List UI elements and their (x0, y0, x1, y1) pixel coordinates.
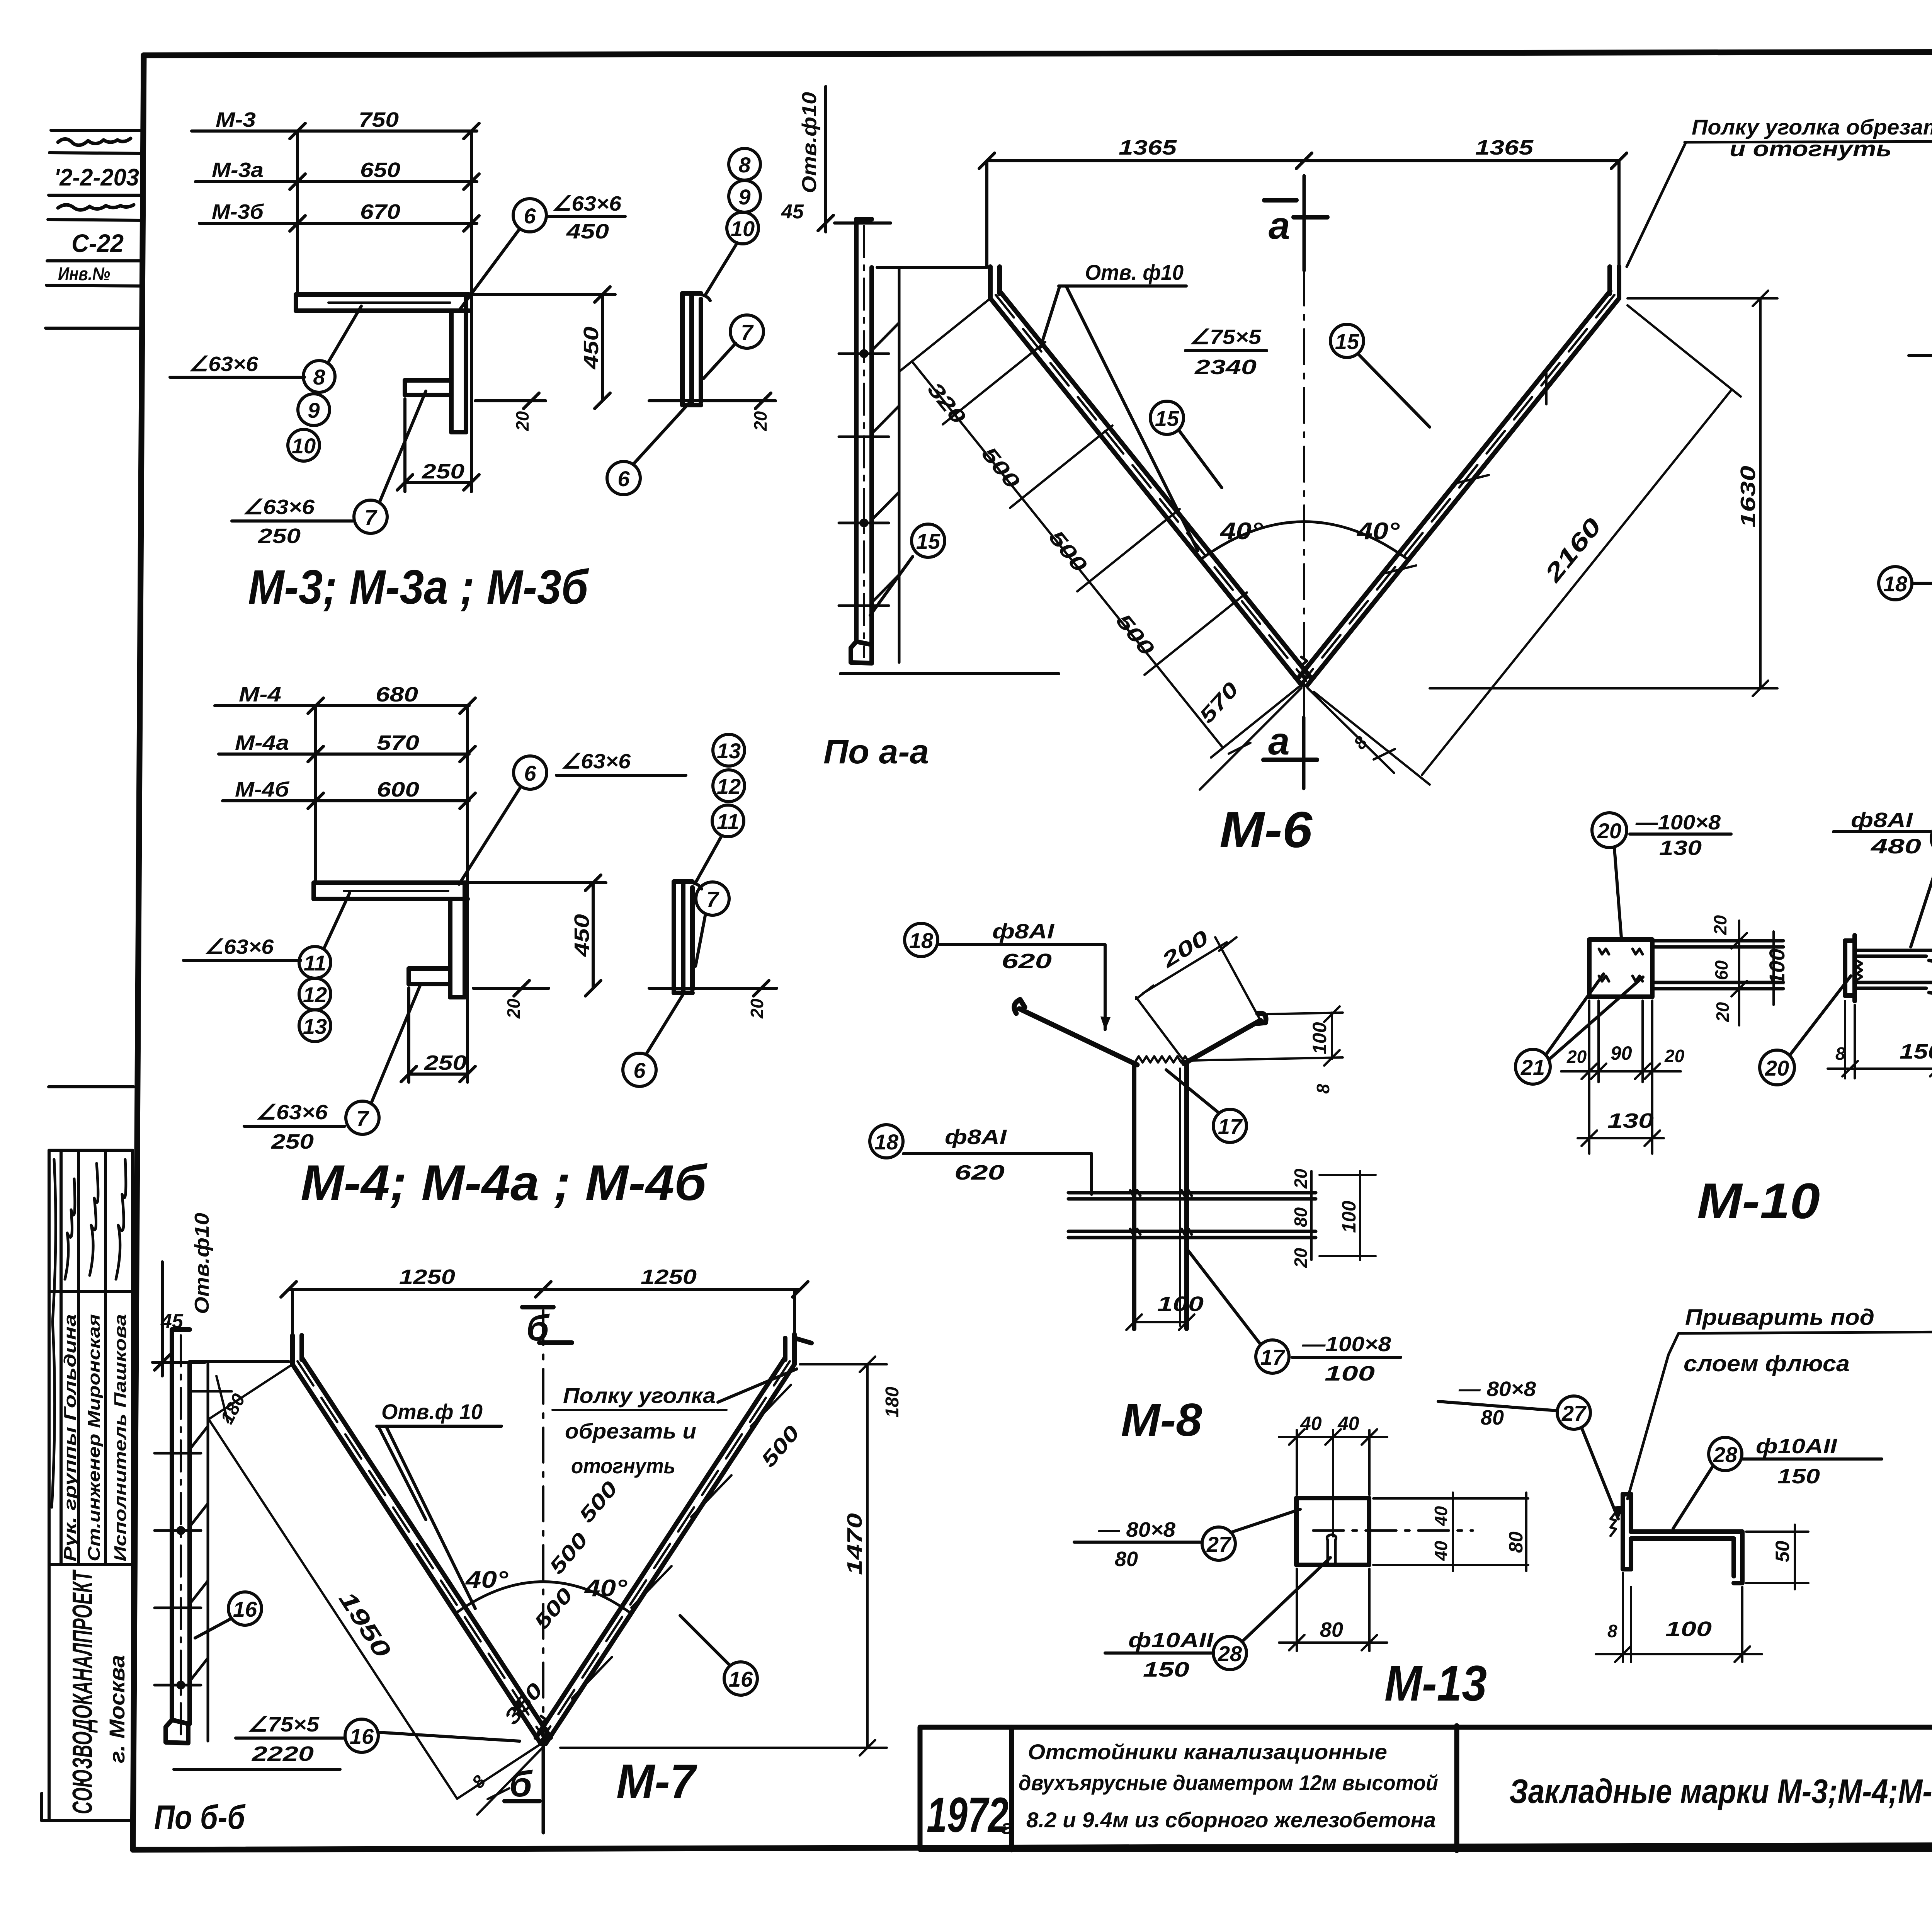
M-10 side view bar (1845, 935, 1855, 1001)
svg-text:ф10АII: ф10АII (1128, 1629, 1214, 1652)
M-6 section bar (По а-а view) (840, 219, 1059, 674)
svg-text:21: 21 (1520, 1055, 1545, 1079)
svg-text:16: 16 (729, 1667, 753, 1691)
svg-text:12: 12 (717, 774, 741, 798)
M-6 40 deg arc (1202, 518, 1406, 558)
svg-text:а: а (1269, 204, 1290, 247)
M-8 callout 18 lower with label (870, 1125, 1092, 1194)
svg-text:45: 45 (781, 201, 804, 223)
svg-text:— 80×8: — 80×8 (1098, 1518, 1175, 1541)
svg-text:∠75×5: ∠75×5 (247, 1713, 320, 1736)
M-13 callout 27 right with label (1438, 1377, 1624, 1520)
M-10 callout 21 upper with label (1833, 809, 1932, 947)
svg-text:150: 150 (1143, 1658, 1189, 1681)
M-10 callout 20 upper with label (1592, 811, 1731, 938)
top-left register table (46, 130, 142, 328)
M-7 section mark b top (522, 1307, 572, 1348)
svg-text:М-4б: М-4б (235, 778, 290, 801)
svg-text:6: 6 (524, 761, 536, 785)
M-7 left arm angle 75x5 (293, 1335, 551, 1744)
svg-text:600: 600 (377, 778, 419, 801)
svg-text:Инв.№: Инв.№ (58, 264, 110, 284)
M-3 callout 6 bottom (607, 402, 690, 495)
M-4 dim 250 (401, 988, 475, 1082)
M-3 bottom label 63x6/250 with callout 7 (232, 391, 426, 548)
M-4 dimension table (215, 683, 475, 1082)
M-6 right dim 1630 (1430, 291, 1777, 696)
M-7 callout 16 at section (195, 1592, 262, 1638)
svg-text:Рук. группы Гольдина: Рук. группы Гольдина (61, 1314, 80, 1561)
svg-text:Отв.ф10: Отв.ф10 (191, 1213, 213, 1314)
M-3 left label 63x6 and callouts 8 9 10 (170, 306, 361, 461)
svg-text:150: 150 (1777, 1465, 1820, 1488)
M-7 right arm angle 75x5 (536, 1334, 811, 1744)
svg-text:С-22: С-22 (71, 229, 124, 257)
M-8 callout 17 bottom with label (1186, 1248, 1401, 1385)
svg-text:20: 20 (1597, 819, 1621, 843)
svg-text:отогнуть: отогнуть (571, 1454, 675, 1478)
M-3 label angle 63x6 with callout 6 (458, 192, 625, 312)
drawing M-9 group (1627, 115, 1932, 698)
M-10 bottom dims 8 150 (1828, 993, 1932, 1078)
svg-text:450: 450 (566, 220, 609, 243)
svg-text:40°: 40° (584, 1575, 628, 1602)
M-3 side view bar (682, 293, 710, 405)
M-4 lower angle bar (409, 969, 450, 984)
svg-text:80: 80 (1505, 1531, 1527, 1553)
svg-text:М-6: М-6 (1219, 801, 1313, 858)
M-6 left arm tick dims 320+500+500+500 (900, 298, 1301, 758)
svg-text:— 80×8: — 80×8 (1458, 1377, 1536, 1401)
M-7 dim 8 at apex (468, 1747, 543, 1815)
M-7 right dim 1470 and 180 (560, 1357, 903, 1755)
svg-text:1250: 1250 (399, 1265, 455, 1289)
svg-text:80: 80 (1115, 1548, 1138, 1571)
svg-text:13: 13 (303, 1014, 327, 1039)
svg-text:60: 60 (1711, 960, 1731, 980)
M-6 left arm angle 75x5 (990, 267, 1311, 685)
svg-text:6: 6 (524, 204, 536, 228)
M-8 bent anchor bar (1014, 999, 1266, 1065)
svg-text:1630: 1630 (1736, 466, 1760, 528)
M-9 callout 18 lower with label (1879, 525, 1932, 612)
svg-text:20: 20 (1713, 1002, 1733, 1022)
svg-text:6: 6 (633, 1058, 646, 1083)
M-3 top angle bar (296, 295, 469, 311)
svg-text:500: 500 (757, 1421, 804, 1471)
svg-text:1365: 1365 (1119, 136, 1177, 159)
svg-text:50: 50 (1772, 1541, 1793, 1562)
M-7 40 deg arc (455, 1566, 631, 1614)
M-6 section mark a bottom (1264, 717, 1317, 788)
svg-text:8: 8 (1835, 1044, 1845, 1064)
M-13 centre line (1313, 1529, 1473, 1532)
M-8 dim 100 8 right (1190, 1006, 1343, 1094)
svg-text:—100×8: —100×8 (1302, 1333, 1391, 1356)
svg-text:и отогнуть: и отогнуть (1730, 136, 1892, 161)
svg-text:∠63×6: ∠63×6 (189, 352, 259, 376)
M-4 left label 63x6 and callouts 11 12 13 (184, 893, 350, 1042)
M-3 vertical leg (451, 295, 466, 432)
svg-text:15: 15 (1335, 329, 1359, 354)
M-10 anchor bars plan (1652, 941, 1783, 989)
svg-text:680: 680 (376, 683, 418, 706)
svg-text:500: 500 (575, 1477, 622, 1527)
M-8 plate front view (1134, 1064, 1187, 1329)
M-3 dim 250 (397, 399, 479, 492)
svg-text:Ст.инженер Миронская: Ст.инженер Миронская (85, 1314, 104, 1561)
svg-text:Исполнитель Пашкова: Исполнитель Пашкова (111, 1314, 130, 1561)
M-13 plate with slot (1296, 1498, 1369, 1565)
svg-text:7: 7 (741, 320, 754, 344)
M-13 right dims 40 40 80 (1373, 1493, 1528, 1571)
svg-text:а: а (1268, 720, 1290, 763)
M-4 callouts 13 12 11 right (696, 734, 745, 883)
svg-text:650: 650 (360, 158, 400, 182)
M-8 transverse bars (1068, 1190, 1316, 1238)
svg-text:130: 130 (1659, 836, 1702, 860)
svg-text:20: 20 (1291, 1248, 1311, 1268)
drawing M-13 group (1074, 1305, 1932, 1711)
svg-text:27: 27 (1206, 1532, 1232, 1556)
svg-text:130: 130 (1607, 1109, 1654, 1132)
svg-text:слоем флюса: слоем флюса (1684, 1351, 1850, 1376)
M-4 callout 6 bottom (623, 992, 685, 1086)
M-7 hole label Отв ф10 (377, 1399, 502, 1609)
M-13 callout 28 left with label (1105, 1558, 1330, 1681)
M-4 callout 7 right (696, 882, 729, 966)
M-7 top dim 1250+1250 (281, 1265, 808, 1360)
M-9 callout 18 upper with label (1909, 272, 1932, 384)
M-13 side dims 50 8 100 (1596, 1525, 1808, 1662)
svg-text:двухъярусные диаметром 12м выс: двухъярусные диаметром 12м высотой (1019, 1771, 1438, 1795)
svg-text:1365: 1365 (1475, 136, 1534, 159)
svg-text:15: 15 (1155, 406, 1179, 431)
svg-text:450: 450 (570, 914, 594, 957)
svg-text:2340: 2340 (1194, 356, 1257, 379)
M-4 top angle bar (314, 883, 468, 899)
M-7 callout 16 right (680, 1616, 757, 1695)
M-8 bottom dim 100 (1126, 1292, 1204, 1330)
svg-text:г. Москва: г. Москва (105, 1655, 129, 1763)
M-3 dimension table (192, 108, 479, 492)
svg-text:∠63×6: ∠63×6 (552, 192, 622, 215)
svg-text:250: 250 (422, 460, 464, 483)
bottom-left stamp block (42, 1087, 134, 1821)
svg-text:20: 20 (1765, 1056, 1789, 1080)
svg-text:750: 750 (359, 108, 399, 131)
M-13 angle side view (1611, 1494, 1742, 1583)
svg-text:13: 13 (717, 739, 741, 763)
svg-text:7: 7 (706, 887, 719, 911)
svg-text:М-10: М-10 (1697, 1173, 1820, 1229)
M-7 section bar anchors and hatching (155, 1426, 208, 1688)
M-6 label 75x5 2340 with callout 15 (1185, 324, 1430, 427)
title block (920, 1722, 1932, 1851)
svg-text:Отв. ф10: Отв. ф10 (1085, 260, 1184, 284)
M-6 section bar top dim 45 and hole label (781, 87, 987, 267)
svg-text:2220: 2220 (252, 1742, 314, 1765)
svg-text:Закладные марки М-3;М-4;М-6÷М-: Закладные марки М-3;М-4;М-6÷М-10;М-13;М-… (1509, 1772, 1932, 1810)
drawing M-10 group (1515, 809, 1932, 1229)
M-6 top dim 1365+1365 (979, 136, 1627, 266)
M-6 dim 570 at apex (1195, 678, 1301, 790)
svg-text:40: 40 (1431, 1541, 1451, 1561)
svg-text:100: 100 (1309, 1022, 1330, 1054)
M-6 right arm dim 2160 (1314, 305, 1741, 785)
svg-text:20: 20 (747, 998, 767, 1019)
svg-text:Отв.ф 10: Отв.ф 10 (381, 1399, 483, 1424)
svg-text:ф8АI: ф8АI (1851, 809, 1913, 832)
svg-text:12: 12 (303, 982, 327, 1007)
svg-text:100: 100 (1665, 1617, 1712, 1641)
M-13 note приварить под (1628, 1305, 1932, 1499)
svg-text:670: 670 (360, 200, 400, 223)
svg-text:8.2 и 9.4м из сборного железоб: 8.2 и 9.4м из сборного железобетона (1026, 1808, 1436, 1832)
svg-text:По а-а: По а-а (823, 732, 929, 771)
svg-text:80: 80 (1291, 1207, 1311, 1227)
svg-text:9: 9 (738, 185, 750, 209)
svg-text:11: 11 (717, 809, 739, 834)
M-3 callout 7 right (703, 315, 764, 379)
M-6 hole label Отв ф10 (1041, 260, 1198, 551)
M-4 bottom label 63x6/250 with callout 7 (244, 985, 420, 1153)
M-13 callout 28 right with label (1673, 1435, 1882, 1529)
svg-text:М-8: М-8 (1121, 1394, 1202, 1446)
M-7 section mark b bottom (505, 1739, 543, 1833)
svg-text:∠63×6: ∠63×6 (204, 935, 274, 958)
drawing M-8 group (870, 920, 1401, 1446)
svg-text:—100×8: —100×8 (1635, 811, 1721, 834)
svg-text:М-4а: М-4а (235, 731, 289, 754)
svg-text:620: 620 (1002, 950, 1052, 973)
drawing M-6 group (781, 87, 1777, 858)
M-13 callout 27 left with label (1074, 1509, 1300, 1571)
svg-text:Приварить под: Приварить под (1685, 1305, 1874, 1330)
M-3 callouts 8 9 10 top right (706, 148, 760, 295)
svg-text:200: 200 (1157, 926, 1213, 972)
svg-text:18: 18 (874, 1130, 899, 1154)
svg-text:8: 8 (313, 365, 325, 389)
svg-text:500: 500 (530, 1583, 577, 1634)
svg-text:18: 18 (909, 928, 934, 953)
svg-text:10: 10 (292, 434, 316, 458)
svg-text:18: 18 (1883, 572, 1908, 596)
svg-text:1470: 1470 (843, 1513, 866, 1575)
M-13 bottom dim 80 (1279, 1569, 1387, 1651)
M-10 side anchors with hooks (1855, 950, 1932, 994)
M-10 plate plan view (1589, 940, 1652, 997)
M-10 callout 20 lower (1760, 976, 1851, 1085)
svg-text:По б-б: По б-б (154, 1798, 246, 1836)
svg-text:250: 250 (258, 524, 301, 548)
svg-text:Полку уголка: Полку уголка (563, 1383, 716, 1408)
M-6 right arm angle 75x5 (1299, 267, 1619, 685)
svg-text:20: 20 (512, 411, 532, 431)
M-4 label 63x6 with callout 6 top (459, 750, 686, 884)
svg-text:16: 16 (233, 1597, 257, 1621)
svg-text:г: г (1002, 1816, 1012, 1839)
svg-text:∠63×6: ∠63×6 (256, 1101, 328, 1124)
svg-text:9: 9 (308, 398, 320, 422)
M-7 dim 180 at section top (190, 1376, 249, 1427)
M-3 dim 450 (471, 287, 776, 431)
svg-text:7: 7 (356, 1106, 369, 1130)
svg-text:40: 40 (1300, 1413, 1322, 1434)
svg-text:17: 17 (1218, 1114, 1243, 1139)
drawing M-7 group (153, 1213, 903, 1836)
M-6 section bar anchors and hatching (839, 323, 899, 606)
M-6 centre line (1303, 271, 1305, 717)
svg-text:20: 20 (750, 411, 770, 431)
M-8 dim 200 (1136, 926, 1260, 1061)
svg-text:∠75×5: ∠75×5 (1189, 325, 1262, 349)
M-4 dim 450 (469, 875, 777, 1019)
svg-text:20: 20 (1664, 1046, 1685, 1066)
svg-text:8: 8 (1607, 1621, 1617, 1641)
svg-text:45: 45 (160, 1310, 184, 1333)
M-7 centre line (542, 1310, 544, 1739)
M-6 apex weld (1301, 657, 1307, 686)
M-10 bottom dims 20 90 20 130 (1561, 1001, 1685, 1154)
svg-text:40°: 40° (465, 1566, 509, 1593)
svg-text:ф10АII: ф10АII (1756, 1435, 1837, 1458)
svg-text:Полку уголка обрезать.: Полку уголка обрезать. (1692, 115, 1932, 139)
svg-text:40: 40 (1431, 1506, 1451, 1526)
svg-text:15: 15 (916, 529, 940, 553)
svg-text:100: 100 (1157, 1292, 1204, 1316)
svg-text:'2-2-203: '2-2-203 (54, 164, 139, 191)
M-6 dim 8 at apex (1308, 688, 1395, 773)
svg-text:100: 100 (1765, 949, 1789, 985)
svg-text:250: 250 (271, 1130, 314, 1153)
M-9 note полку уголка (1627, 115, 1932, 267)
drawing M-4 group (184, 683, 777, 1211)
svg-text:М-3б: М-3б (212, 200, 264, 223)
svg-text:Отв.ф10: Отв.ф10 (798, 92, 821, 193)
svg-text:500: 500 (545, 1528, 592, 1578)
svg-text:620: 620 (954, 1161, 1005, 1184)
svg-text:80: 80 (1320, 1618, 1343, 1641)
svg-text:150: 150 (1900, 1040, 1932, 1063)
M-7 left arm dim 1950 (209, 1364, 541, 1799)
M-3 lower angle bar (405, 380, 451, 395)
svg-text:40: 40 (1337, 1413, 1359, 1434)
M-8 weld at plate top (1135, 1056, 1189, 1062)
svg-text:СОЮЗВОДОКАНАЛПРОЕКТ: СОЮЗВОДОКАНАЛПРОЕКТ (67, 1569, 98, 1814)
svg-text:450: 450 (580, 327, 603, 369)
M-8 callout 17 upper (1166, 1070, 1247, 1142)
svg-text:28: 28 (1713, 1442, 1738, 1467)
M-6 callout 15 at section (870, 524, 945, 615)
M-8 callout 18 upper with label (905, 920, 1111, 1030)
M-6 section mark a top (1264, 176, 1327, 271)
svg-text:27: 27 (1561, 1401, 1587, 1425)
M-7 right arm tick dims 500s and 350 (500, 1385, 804, 1729)
svg-text:∠63×6: ∠63×6 (561, 750, 631, 773)
svg-text:570: 570 (377, 731, 419, 754)
svg-text:180: 180 (882, 1387, 903, 1418)
svg-text:М-13: М-13 (1384, 1655, 1487, 1711)
svg-text:∠63×6: ∠63×6 (243, 495, 315, 519)
svg-text:80: 80 (1481, 1406, 1504, 1429)
svg-text:250: 250 (424, 1051, 467, 1074)
svg-text:28: 28 (1218, 1641, 1242, 1666)
M-7 note полку уголка (553, 1369, 797, 1478)
M-10 callout 21 lower left (1515, 974, 1643, 1084)
svg-text:М-3; М-3а ; М-3б: М-3; М-3а ; М-3б (248, 560, 589, 614)
svg-text:М-3: М-3 (216, 108, 256, 131)
svg-text:10: 10 (731, 216, 755, 241)
M-10 mid dims 20 60 20 100 (1710, 915, 1789, 1025)
M-7 section bar (По б-б view) (166, 1330, 340, 1769)
svg-text:6: 6 (617, 466, 630, 491)
M-7 apex weld (541, 1716, 546, 1742)
svg-text:480: 480 (1871, 835, 1921, 858)
svg-text:16: 16 (350, 1724, 374, 1748)
svg-text:ф8АI: ф8АI (945, 1125, 1007, 1149)
M-13 top dims 40 40 (1279, 1413, 1387, 1536)
M-6 callout 15 mid (1150, 401, 1222, 488)
svg-text:20: 20 (503, 998, 524, 1019)
svg-text:20: 20 (1291, 1168, 1311, 1189)
M-8 right dims 20 80 20 100 (1291, 1168, 1376, 1268)
svg-text:2160: 2160 (1539, 513, 1607, 587)
M-7 label 75x5 2220 with callout 16 (236, 1713, 520, 1765)
svg-text:8: 8 (1313, 1084, 1333, 1094)
svg-text:обрезать и: обрезать и (565, 1419, 696, 1443)
svg-text:Отстойники канализационные: Отстойники канализационные (1028, 1740, 1387, 1764)
svg-text:100: 100 (1338, 1200, 1360, 1233)
svg-text:40°: 40° (1356, 518, 1400, 545)
svg-text:ф8АI: ф8АI (992, 920, 1054, 943)
svg-text:1972: 1972 (927, 1788, 1009, 1843)
M-7 section bar top dim 45 and hole label (153, 1213, 289, 1376)
svg-text:100: 100 (1325, 1362, 1375, 1385)
svg-text:20: 20 (1710, 915, 1730, 935)
svg-text:40°: 40° (1219, 518, 1264, 545)
svg-text:М-4; М-4а ; М-4б: М-4; М-4а ; М-4б (301, 1154, 708, 1211)
svg-text:1250: 1250 (641, 1265, 697, 1289)
drawing M-3 group (170, 108, 776, 614)
svg-text:М-7: М-7 (616, 1755, 697, 1808)
svg-text:8: 8 (738, 153, 751, 177)
svg-text:11: 11 (304, 951, 326, 975)
svg-text:17: 17 (1260, 1345, 1286, 1369)
M-4 side view bar (674, 882, 702, 993)
svg-text:90: 90 (1611, 1042, 1632, 1064)
M-4 vertical leg (450, 883, 465, 997)
svg-text:7: 7 (364, 505, 378, 529)
svg-text:20: 20 (1566, 1047, 1587, 1067)
svg-text:М-3а: М-3а (212, 158, 264, 182)
svg-text:М-4: М-4 (239, 683, 281, 706)
